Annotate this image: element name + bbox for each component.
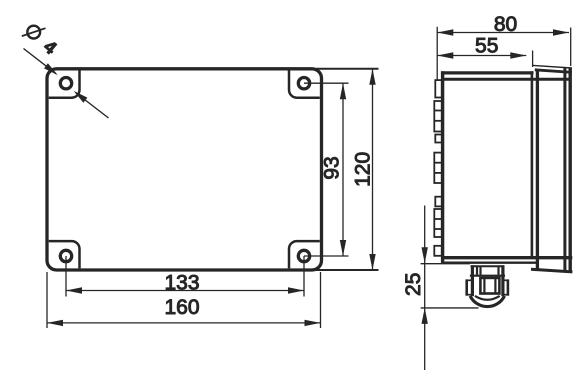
side view body bottom inner lip xyxy=(441,262,539,264)
extension line 25 top xyxy=(421,263,470,265)
extension line 133 left xyxy=(65,256,67,297)
dimension line 55 xyxy=(437,55,526,57)
mounting hole bottom-left xyxy=(60,250,71,261)
arrowhead 120 bottom xyxy=(369,254,375,270)
cable gland collar bottom line xyxy=(470,275,505,277)
terminal block E xyxy=(435,197,442,207)
arrowhead 133 right xyxy=(288,287,304,293)
arrowhead 55 left xyxy=(437,52,453,58)
diameter symbol circle xyxy=(27,26,40,39)
arrowhead 25 bottom xyxy=(422,308,428,324)
lid bottom edge xyxy=(531,269,572,272)
svg-text:133: 133 xyxy=(164,272,199,295)
cable gland nut right wing xyxy=(507,279,510,295)
arrowhead 133 left xyxy=(66,287,82,293)
dimension line 25 xyxy=(424,206,426,371)
extension line 120 bottom xyxy=(316,269,379,271)
side view body bottom edge xyxy=(441,256,572,259)
arrowhead 120 top xyxy=(369,69,375,85)
arrowhead 160 right xyxy=(305,320,321,326)
svg-text:55: 55 xyxy=(475,34,498,57)
svg-text:25: 25 xyxy=(402,273,425,296)
cable gland nut left wing xyxy=(465,279,468,295)
terminal block D xyxy=(434,153,442,183)
cable gland top line xyxy=(471,265,505,267)
mounting hole bottom-right xyxy=(298,250,309,261)
arrowhead 55 right xyxy=(510,52,526,58)
extension line 160 right xyxy=(320,272,322,328)
svg-text:4: 4 xyxy=(40,36,61,58)
leader line upper for hole diameter xyxy=(24,49,57,74)
enclosure front outline xyxy=(47,69,322,270)
lid left face xyxy=(536,70,539,269)
side view body top edge xyxy=(441,71,534,74)
lid right outer line xyxy=(569,68,572,272)
svg-text:160: 160 xyxy=(164,296,199,319)
corner boss top-right xyxy=(289,70,320,97)
arrowhead 80 left xyxy=(437,29,453,35)
side view body right wall xyxy=(531,71,534,258)
svg-text:120: 120 xyxy=(352,152,375,187)
extension line 93 bottom xyxy=(304,255,349,257)
extension line 160 left xyxy=(46,272,48,328)
side view body left wall xyxy=(441,71,444,263)
arrowhead 80 right xyxy=(553,29,569,35)
side view body top inner lip xyxy=(443,78,572,81)
mounting hole top-left xyxy=(60,78,71,89)
cable gland dome cap xyxy=(470,296,504,307)
extension line 55 right xyxy=(532,51,534,68)
terminal block B xyxy=(434,101,442,132)
terminal block G xyxy=(434,246,442,256)
mounting hole top-right xyxy=(298,78,309,89)
extension line 80 left xyxy=(436,27,438,81)
arrowhead 93 bottom xyxy=(340,240,346,256)
arrowhead 93 top xyxy=(340,83,346,99)
cable gland dome inner arc xyxy=(475,296,500,300)
lid top outer edge xyxy=(533,65,572,68)
corner boss bottom-left xyxy=(49,241,80,268)
lid top inner edge xyxy=(535,70,572,73)
dimension line 93 xyxy=(342,83,344,256)
diameter symbol slash xyxy=(22,28,46,36)
lid right inner line xyxy=(563,67,566,271)
svg-text:93: 93 xyxy=(321,156,344,179)
terminal block F xyxy=(434,209,442,237)
corner boss bottom-right xyxy=(289,241,320,268)
arrowhead 160 left xyxy=(47,320,63,326)
extension line 133 right xyxy=(303,256,305,297)
corner boss top-left xyxy=(49,70,80,97)
svg-text:80: 80 xyxy=(494,13,517,36)
extension line 25 bottom xyxy=(421,307,479,309)
extension line 120 top xyxy=(316,68,379,70)
extension line 80 right xyxy=(570,28,572,67)
terminal block A xyxy=(435,80,442,97)
cable gland inner sleeve xyxy=(480,278,499,294)
extension line 93 top xyxy=(304,82,349,84)
cable gland collar stripes xyxy=(471,265,474,296)
leader line lower for hole diameter xyxy=(76,93,109,119)
dimension line 160 xyxy=(47,322,321,324)
leader arrowhead lower xyxy=(74,91,88,103)
leader arrowhead upper xyxy=(44,63,58,75)
terminal block C xyxy=(435,135,442,143)
dimension line 133 xyxy=(66,290,304,292)
dimension line 80 xyxy=(437,32,569,34)
dimension line 120 xyxy=(372,69,374,270)
arrowhead 25 top xyxy=(422,247,428,263)
